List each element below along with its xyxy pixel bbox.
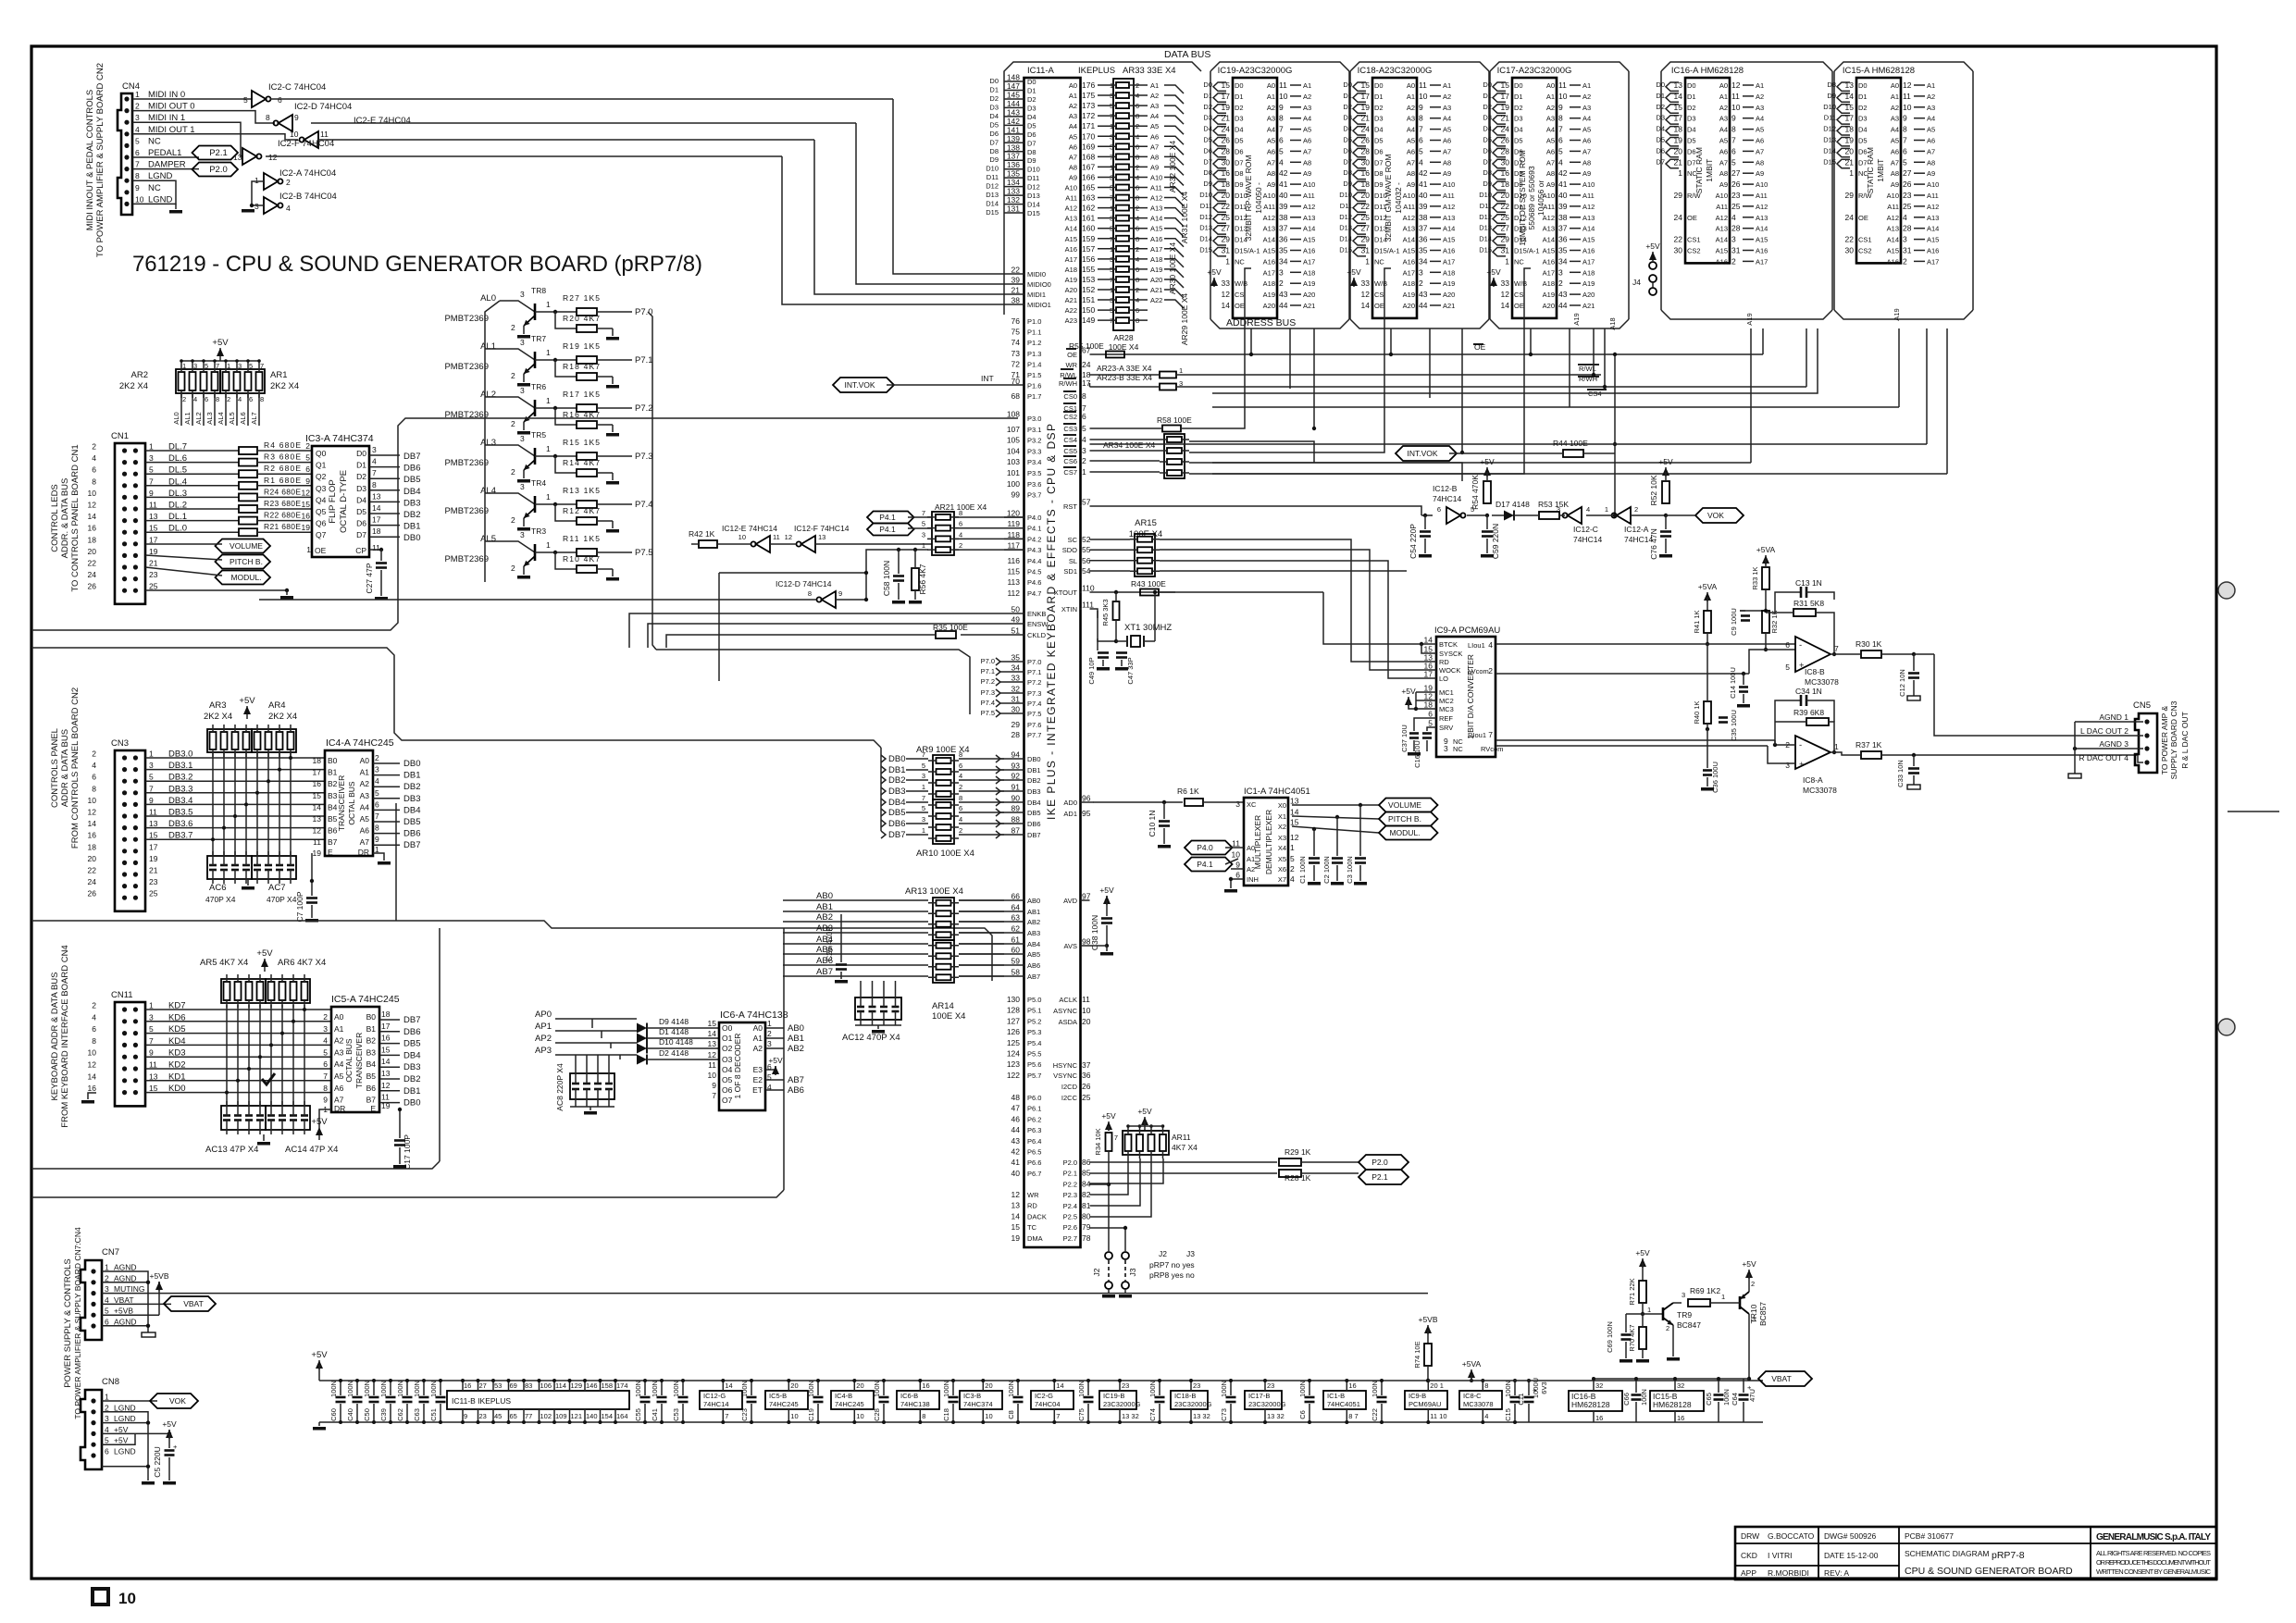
svg-text:23: 23 xyxy=(149,877,158,886)
wire CN1 DL.4 xyxy=(145,485,239,487)
svg-text:CS: CS xyxy=(1235,291,1244,299)
svg-text:89: 89 xyxy=(1011,804,1021,813)
svg-text:3: 3 xyxy=(149,761,154,770)
svg-text:ADDR & DATA BUS: ADDR & DATA BUS xyxy=(60,729,70,807)
svg-text:C18: C18 xyxy=(942,1408,950,1421)
svg-text:A7: A7 xyxy=(1719,158,1728,167)
svg-text:66: 66 xyxy=(1011,892,1021,901)
svg-text:P5.7: P5.7 xyxy=(1027,1072,1041,1080)
svg-text:7: 7 xyxy=(922,794,925,802)
svg-text:A5: A5 xyxy=(1546,137,1555,145)
svg-text:44: 44 xyxy=(1419,301,1428,310)
svg-text:1: 1 xyxy=(546,348,551,357)
svg-text:1: 1 xyxy=(546,444,551,453)
resistor R32 1K xyxy=(1762,611,1769,633)
svg-text:O1: O1 xyxy=(722,1034,733,1043)
svg-text:22: 22 xyxy=(1674,235,1683,244)
svg-text:A19: A19 xyxy=(1403,291,1415,299)
svg-text:CS3: CS3 xyxy=(1063,425,1077,433)
svg-text:A13: A13 xyxy=(1582,214,1595,222)
svg-text:IC19-A23C32000G: IC19-A23C32000G xyxy=(1218,66,1293,76)
svg-text:SL: SL xyxy=(1069,557,1077,565)
svg-text:AGND: AGND xyxy=(114,1318,137,1327)
svg-text:DB3: DB3 xyxy=(403,498,420,508)
svg-text:8: 8 xyxy=(808,589,812,598)
svg-text:3: 3 xyxy=(323,1024,328,1034)
svg-text:A9: A9 xyxy=(1303,169,1311,178)
svg-text:O3: O3 xyxy=(722,1055,733,1064)
svg-text:C10 1N: C10 1N xyxy=(1148,811,1157,837)
wire CN3 DB3.1 xyxy=(145,769,324,771)
wire IC5 DB6 xyxy=(379,1031,400,1033)
svg-text:AR13 100E X4: AR13 100E X4 xyxy=(905,886,963,897)
svg-text:15: 15 xyxy=(149,831,158,840)
ground CN4 xyxy=(169,210,182,214)
svg-text:6: 6 xyxy=(1903,146,1907,155)
svg-text:9: 9 xyxy=(135,183,140,192)
svg-text:+5V: +5V xyxy=(1099,886,1114,895)
svg-text:32: 32 xyxy=(1011,685,1021,694)
capacitor C6 100N xyxy=(1309,1381,1310,1395)
svg-text:A14: A14 xyxy=(1303,225,1315,233)
svg-text:1: 1 xyxy=(149,442,154,452)
svg-text:4: 4 xyxy=(105,1425,109,1434)
svg-text:A1: A1 xyxy=(1407,93,1415,101)
tag VOLUME mux xyxy=(1379,799,1438,812)
wire IC6 AB7 xyxy=(765,1079,784,1081)
svg-text:REF: REF xyxy=(1439,714,1453,723)
svg-text:8: 8 xyxy=(1419,114,1423,123)
svg-text:14: 14 xyxy=(1501,301,1510,310)
svg-text:Q6: Q6 xyxy=(316,519,327,528)
svg-text:2: 2 xyxy=(1488,666,1493,675)
svg-text:12: 12 xyxy=(1731,81,1741,90)
svg-text:X3: X3 xyxy=(1278,834,1286,842)
svg-text:A7: A7 xyxy=(1150,142,1159,151)
tag INT.VOK right xyxy=(1396,446,1457,461)
svg-text:C54 220P: C54 220P xyxy=(1409,524,1418,559)
svg-text:D4: D4 xyxy=(1203,125,1212,133)
capacitor array AC12 470P X4 xyxy=(855,997,901,1020)
svg-text:A2: A2 xyxy=(1247,865,1255,873)
svg-text:D1: D1 xyxy=(1687,93,1696,101)
svg-text:13: 13 xyxy=(372,491,381,501)
svg-text:A3: A3 xyxy=(1069,112,1077,120)
svg-text:B4: B4 xyxy=(366,1059,377,1069)
svg-text:A14: A14 xyxy=(1403,236,1415,244)
svg-text:ADDR. & DATA BUS: ADDR. & DATA BUS xyxy=(60,478,70,559)
svg-text:pRP7-8: pRP7-8 xyxy=(1992,1550,2025,1561)
svg-text:18: 18 xyxy=(381,1010,391,1019)
svg-text:19: 19 xyxy=(381,1101,391,1110)
svg-text:27: 27 xyxy=(1903,168,1912,178)
svg-text:AGND 1: AGND 1 xyxy=(2099,712,2128,722)
wire OE to ROMs xyxy=(1481,353,1763,355)
svg-text:A4: A4 xyxy=(334,1059,344,1069)
svg-text:7: 7 xyxy=(135,160,140,169)
svg-text:+5VA: +5VA xyxy=(1698,582,1718,591)
svg-text:A11: A11 xyxy=(1403,203,1415,211)
svg-text:C50: C50 xyxy=(363,1408,371,1421)
svg-text:R55 100E: R55 100E xyxy=(1069,341,1104,351)
power +5V CN8 xyxy=(168,1430,170,1433)
svg-text:29: 29 xyxy=(1674,191,1683,200)
capacitor C5 220U xyxy=(168,1433,170,1448)
svg-text:A4: A4 xyxy=(1756,115,1764,123)
wire OE long xyxy=(1090,353,1482,355)
wire IC12-F to AR21 xyxy=(815,543,932,545)
svg-text:2K2 X4: 2K2 X4 xyxy=(119,381,148,391)
svg-text:IC2-C 74HC04: IC2-C 74HC04 xyxy=(268,82,326,93)
jumper J3 xyxy=(1122,1252,1129,1259)
svg-text:93: 93 xyxy=(1011,762,1021,771)
svg-text:73: 73 xyxy=(1011,349,1021,358)
svg-text:94: 94 xyxy=(1011,750,1021,760)
svg-text:AB6: AB6 xyxy=(1027,961,1040,970)
svg-text:A13: A13 xyxy=(1303,214,1315,222)
IC U IC15-B HM628128 supply xyxy=(1650,1391,1704,1411)
svg-text:BC857: BC857 xyxy=(1758,1302,1768,1326)
svg-text:PMBT2369: PMBT2369 xyxy=(444,314,489,324)
svg-text:A23: A23 xyxy=(1065,316,1077,325)
svg-text:AB1: AB1 xyxy=(788,1034,804,1044)
svg-text:31: 31 xyxy=(1731,246,1741,255)
svg-text:74HC245: 74HC245 xyxy=(769,1400,799,1408)
svg-text:D9: D9 xyxy=(1027,156,1036,165)
svg-text:14: 14 xyxy=(88,819,97,828)
svg-text:5: 5 xyxy=(149,773,154,782)
svg-text:C74: C74 xyxy=(1148,1408,1157,1421)
svg-text:13: 13 xyxy=(1011,1201,1021,1210)
ground TR9 emitter xyxy=(1672,1325,1674,1357)
svg-text:2: 2 xyxy=(1558,279,1563,288)
ground AC6/AC7 xyxy=(247,879,249,886)
svg-text:D5: D5 xyxy=(1656,136,1665,144)
svg-text:165: 165 xyxy=(1082,183,1095,192)
svg-text:OE: OE xyxy=(1687,214,1697,222)
svg-text:A5: A5 xyxy=(1303,126,1311,134)
svg-text:10: 10 xyxy=(1558,92,1568,101)
svg-text:110: 110 xyxy=(1082,584,1095,593)
capacitor C17 100P xyxy=(399,1109,401,1138)
capacitor C27 47P xyxy=(369,549,381,551)
svg-text:D2: D2 xyxy=(1027,95,1036,104)
svg-text:X2: X2 xyxy=(1278,823,1286,831)
svg-text:C13 1N: C13 1N xyxy=(1795,578,1822,588)
svg-text:48: 48 xyxy=(1011,1093,1021,1102)
svg-text:A20: A20 xyxy=(1065,286,1077,294)
svg-text:AR33 33E X4: AR33 33E X4 xyxy=(1123,66,1176,76)
svg-text:D4: D4 xyxy=(1483,125,1492,133)
svg-text:120: 120 xyxy=(1007,509,1020,518)
svg-text:6: 6 xyxy=(135,148,140,157)
svg-text:TRANSCEIVER: TRANSCEIVER xyxy=(354,1033,364,1088)
svg-text:AR31 100E X4: AR31 100E X4 xyxy=(1180,192,1189,244)
svg-text:E3: E3 xyxy=(753,1065,763,1074)
svg-text:107: 107 xyxy=(1007,425,1020,434)
ground IC2-B xyxy=(252,204,264,206)
svg-text:A11: A11 xyxy=(1756,192,1768,200)
svg-text:D14: D14 xyxy=(1339,235,1352,243)
svg-text:104050 -: 104050 - xyxy=(1254,182,1263,214)
svg-text:P1.0: P1.0 xyxy=(1027,317,1041,326)
svg-text:A12: A12 xyxy=(1303,203,1315,211)
svg-text:IC9-A PCM69AU: IC9-A PCM69AU xyxy=(1434,626,1500,636)
svg-text:D12: D12 xyxy=(1027,183,1040,192)
svg-text:R & L DAC OUT: R & L DAC OUT xyxy=(2180,712,2190,769)
wire IC3 DB3 xyxy=(369,501,400,502)
svg-text:38: 38 xyxy=(1419,213,1428,222)
svg-text:IC8-A: IC8-A xyxy=(1803,775,1823,785)
svg-text:155: 155 xyxy=(1082,265,1095,274)
svg-text:DACK: DACK xyxy=(1027,1212,1047,1220)
tag VOK right xyxy=(1695,508,1744,523)
svg-text:A13: A13 xyxy=(1756,214,1768,222)
svg-text:A12: A12 xyxy=(1887,214,1899,222)
svg-text:D11: D11 xyxy=(1824,114,1836,122)
svg-text:FROM KEYBOARD INTERFACE BOARD: FROM KEYBOARD INTERFACE BOARD CN4 xyxy=(60,945,70,1127)
capacitor C38 100N xyxy=(1106,900,1108,916)
svg-text:7: 7 xyxy=(216,362,219,370)
svg-text:7: 7 xyxy=(1558,125,1563,134)
svg-text:17: 17 xyxy=(149,535,158,544)
svg-text:100N: 100N xyxy=(1298,1381,1307,1397)
svg-text:A19: A19 xyxy=(1065,276,1077,284)
svg-text:100E X4: 100E X4 xyxy=(932,1011,965,1022)
svg-text:13: 13 xyxy=(313,814,322,824)
wire CN11 KD3 xyxy=(145,1056,331,1058)
IC U IC11-B IKEPLUS supply xyxy=(447,1391,629,1409)
svg-text:TR9: TR9 xyxy=(1677,1310,1692,1319)
svg-text:NC: NC xyxy=(148,183,161,193)
svg-text:42: 42 xyxy=(1558,168,1568,178)
ground CN11 pin16 xyxy=(88,1093,96,1099)
svg-text:6: 6 xyxy=(92,773,96,782)
svg-text:30: 30 xyxy=(1674,246,1683,255)
wire CN5 AGND3 xyxy=(2075,748,2143,750)
svg-text:14: 14 xyxy=(1222,301,1231,310)
svg-text:18: 18 xyxy=(88,535,97,544)
svg-text:35: 35 xyxy=(1419,246,1428,255)
svg-text:D5: D5 xyxy=(1483,136,1492,144)
svg-text:A4: A4 xyxy=(1719,126,1728,134)
svg-text:IC8-B: IC8-B xyxy=(1805,667,1825,676)
jumper J2 xyxy=(1105,1252,1112,1259)
capacitor C8 100N xyxy=(1017,1381,1019,1395)
svg-text:91: 91 xyxy=(1011,783,1021,792)
svg-text:11: 11 xyxy=(320,130,329,139)
svg-text:O2: O2 xyxy=(722,1044,733,1053)
svg-text:P7.5: P7.5 xyxy=(635,548,653,558)
capacitor C14 100U xyxy=(1742,672,1745,675)
svg-text:A17: A17 xyxy=(1303,257,1315,266)
svg-text:32MBIT GM-WAVE ROM: 32MBIT GM-WAVE ROM xyxy=(1384,155,1393,242)
svg-text:D3: D3 xyxy=(1027,104,1036,112)
svg-text:11: 11 xyxy=(313,837,321,847)
svg-text:25: 25 xyxy=(1903,202,1912,211)
svg-text:112: 112 xyxy=(1007,588,1020,598)
svg-text:A15: A15 xyxy=(1403,247,1415,255)
svg-text:DB1: DB1 xyxy=(403,522,420,532)
svg-text:3: 3 xyxy=(520,386,525,395)
capacitor C49 10P xyxy=(1097,611,1098,618)
svg-text:P3.7: P3.7 xyxy=(1027,491,1041,500)
svg-text:34: 34 xyxy=(1011,663,1021,673)
svg-text:D10: D10 xyxy=(986,165,999,173)
svg-text:7: 7 xyxy=(149,784,154,793)
svg-text:A16: A16 xyxy=(1443,247,1455,255)
svg-text:D5: D5 xyxy=(356,507,366,516)
svg-text:121: 121 xyxy=(571,1412,583,1420)
svg-text:X5: X5 xyxy=(1278,855,1286,863)
svg-text:HSYNC: HSYNC xyxy=(1053,1061,1078,1070)
resistor R54 470K xyxy=(1467,514,1487,516)
wire IC2-A in xyxy=(252,181,264,205)
svg-text:DWG# 500926: DWG# 500926 xyxy=(1824,1531,1876,1541)
ground R14 xyxy=(612,473,614,480)
svg-text:C15: C15 xyxy=(1504,1408,1512,1421)
svg-text:B5: B5 xyxy=(328,814,338,824)
svg-text:1: 1 xyxy=(1849,168,1854,178)
svg-text:P2.5: P2.5 xyxy=(1063,1213,1077,1221)
svg-text:1: 1 xyxy=(546,300,551,309)
svg-text:5: 5 xyxy=(922,804,925,812)
svg-text:A9: A9 xyxy=(1407,180,1415,189)
svg-text:A8: A8 xyxy=(1546,169,1555,178)
wire CN1 DL.2 xyxy=(145,508,239,510)
svg-text:A4: A4 xyxy=(360,802,370,811)
svg-text:7: 7 xyxy=(1419,125,1423,134)
svg-text:15: 15 xyxy=(1290,818,1299,827)
svg-text:8: 8 xyxy=(372,480,377,489)
svg-text:16: 16 xyxy=(464,1381,471,1390)
svg-text:CN3: CN3 xyxy=(111,738,129,749)
svg-text:+5V: +5V xyxy=(1480,457,1495,466)
wire IC4 DB3 xyxy=(373,798,400,799)
svg-text:DMA: DMA xyxy=(1027,1234,1043,1243)
capacitor C59 220N xyxy=(1486,515,1488,529)
svg-text:4: 4 xyxy=(1903,213,1907,222)
wire P4.3 net xyxy=(866,550,928,600)
svg-text:A9: A9 xyxy=(1443,169,1451,178)
svg-text:23: 23 xyxy=(1267,1381,1274,1390)
svg-text:INT.VOK: INT.VOK xyxy=(1407,449,1437,458)
svg-text:J4: J4 xyxy=(1632,278,1641,287)
svg-text:43: 43 xyxy=(1011,1136,1021,1146)
svg-text:74HC14: 74HC14 xyxy=(703,1400,729,1408)
svg-text:AGND 3: AGND 3 xyxy=(2099,739,2128,749)
svg-text:A19: A19 xyxy=(1150,266,1162,274)
wire group outline decoder xyxy=(783,928,785,1190)
svg-text:A5: A5 xyxy=(1069,132,1077,141)
svg-text:3: 3 xyxy=(1557,505,1560,514)
ground CN5 xyxy=(2074,722,2076,774)
svg-text:5: 5 xyxy=(922,520,925,528)
svg-text:C26 470P: C26 470P xyxy=(825,926,834,961)
svg-text:A5: A5 xyxy=(360,814,370,824)
svg-text:BC847: BC847 xyxy=(1677,1320,1701,1330)
svg-text:1: 1 xyxy=(922,783,925,791)
svg-text:2: 2 xyxy=(135,102,140,111)
svg-text:D15: D15 xyxy=(1339,246,1352,254)
svg-text:A12: A12 xyxy=(1716,214,1728,222)
IC U IC9-B PCM69AU supply xyxy=(1405,1391,1447,1409)
svg-text:A17: A17 xyxy=(1443,257,1455,266)
svg-text:P7.1: P7.1 xyxy=(981,667,995,675)
tag VOLUME xyxy=(216,539,271,553)
svg-text:P6.3: P6.3 xyxy=(1027,1126,1041,1134)
svg-text:IC5-B: IC5-B xyxy=(769,1392,787,1400)
svg-text:28: 28 xyxy=(1011,730,1021,739)
wire DB3 into AR9/AR10 xyxy=(881,787,886,795)
svg-text:A3: A3 xyxy=(1303,104,1311,112)
svg-text:1: 1 xyxy=(135,90,140,99)
svg-text:IC2-B 74HC04: IC2-B 74HC04 xyxy=(279,192,337,202)
svg-text:IC8-C: IC8-C xyxy=(1463,1392,1482,1400)
svg-text:7: 7 xyxy=(922,509,925,517)
wire CN1 DL.6 xyxy=(145,462,239,464)
svg-text:3: 3 xyxy=(1682,1291,1685,1299)
svg-text:5: 5 xyxy=(922,762,925,770)
capacitor C28 100N xyxy=(883,1381,885,1395)
svg-text:35: 35 xyxy=(1558,246,1568,255)
svg-text:VBAT: VBAT xyxy=(183,1299,204,1308)
svg-text:+5V: +5V xyxy=(1486,267,1501,277)
wire DB0 into AR9/AR10 xyxy=(881,755,886,762)
svg-text:60: 60 xyxy=(1011,946,1021,955)
wire IC3 DB1 xyxy=(369,525,400,527)
svg-text:D5: D5 xyxy=(1027,121,1036,130)
svg-text:157: 157 xyxy=(1082,244,1095,254)
svg-text:3: 3 xyxy=(149,1012,154,1022)
svg-text:19: 19 xyxy=(313,849,322,858)
IC U IC12-G 74HC14 supply xyxy=(700,1391,742,1409)
svg-text:A20: A20 xyxy=(1303,291,1315,299)
svg-text:R6 1K: R6 1K xyxy=(1177,787,1199,796)
svg-text:DB7: DB7 xyxy=(888,830,905,840)
wire MUTING long xyxy=(102,1293,1428,1295)
svg-text:DB7: DB7 xyxy=(1027,831,1041,839)
svg-text:19: 19 xyxy=(1011,1233,1021,1243)
svg-text:2: 2 xyxy=(105,1403,109,1412)
svg-text:MIDIO0: MIDIO0 xyxy=(1027,280,1051,289)
svg-text:O5: O5 xyxy=(722,1075,733,1084)
svg-text:A6: A6 xyxy=(1443,137,1451,145)
svg-text:A12: A12 xyxy=(1150,194,1162,203)
svg-text:23C32000G: 23C32000G xyxy=(1174,1400,1212,1408)
svg-text:R2 680E: R2 680E xyxy=(264,464,301,473)
svg-text:P2.1: P2.1 xyxy=(1063,1170,1077,1178)
svg-text:P5.4: P5.4 xyxy=(1027,1039,1041,1047)
svg-text:A8: A8 xyxy=(1443,158,1451,167)
svg-text:VOK: VOK xyxy=(169,1396,186,1406)
svg-text:D1: D1 xyxy=(1514,93,1523,101)
svg-text:A7: A7 xyxy=(1756,147,1764,155)
svg-text:A0: A0 xyxy=(1891,81,1899,90)
svg-text:A7: A7 xyxy=(1443,147,1451,155)
svg-text:R23 680E: R23 680E xyxy=(264,499,301,508)
svg-text:AC13 47P X4: AC13 47P X4 xyxy=(205,1145,258,1155)
svg-text:R37 1K: R37 1K xyxy=(1855,740,1882,750)
svg-text:40: 40 xyxy=(1558,191,1568,200)
svg-text:15: 15 xyxy=(313,791,322,800)
tag P2.1 xyxy=(192,146,239,160)
svg-text:IC2-G: IC2-G xyxy=(1035,1392,1053,1400)
svg-text:100N: 100N xyxy=(1220,1381,1228,1397)
svg-text:D15: D15 xyxy=(1027,209,1040,217)
svg-text:P6.5: P6.5 xyxy=(1027,1148,1041,1157)
svg-text:A14: A14 xyxy=(1443,225,1455,233)
